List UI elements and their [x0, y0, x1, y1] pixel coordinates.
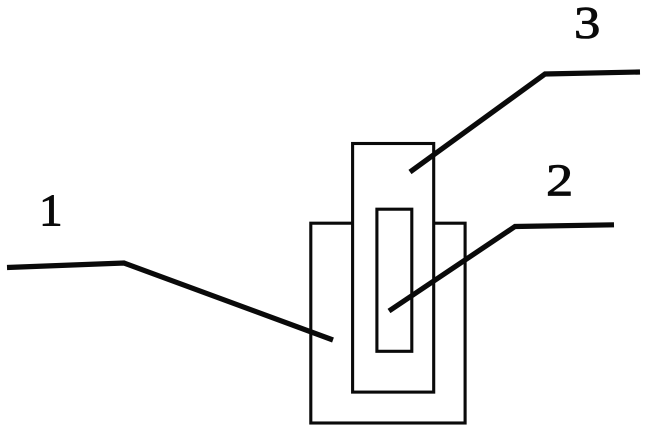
svg-text:2: 2	[546, 155, 573, 205]
outer rectangle (component body)	[311, 223, 465, 423]
svg-text:1: 1	[39, 186, 63, 236]
inner rectangle 2 (slot)	[377, 209, 412, 351]
leader line 1	[7, 263, 333, 340]
svg-text:3: 3	[574, 0, 600, 48]
leader line 2	[389, 225, 614, 311]
leader line 3	[410, 72, 640, 172]
middle rectangle 3 (tall insert)	[353, 144, 434, 393]
